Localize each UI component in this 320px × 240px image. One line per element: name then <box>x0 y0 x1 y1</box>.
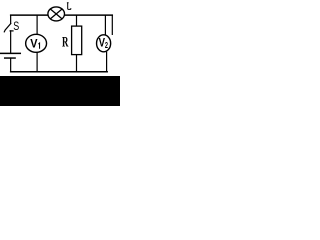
svg-text:R: R <box>62 33 69 50</box>
svg-text:2: 2 <box>105 42 108 50</box>
svg-text:V: V <box>30 37 37 51</box>
svg-text:S: S <box>13 21 19 33</box>
